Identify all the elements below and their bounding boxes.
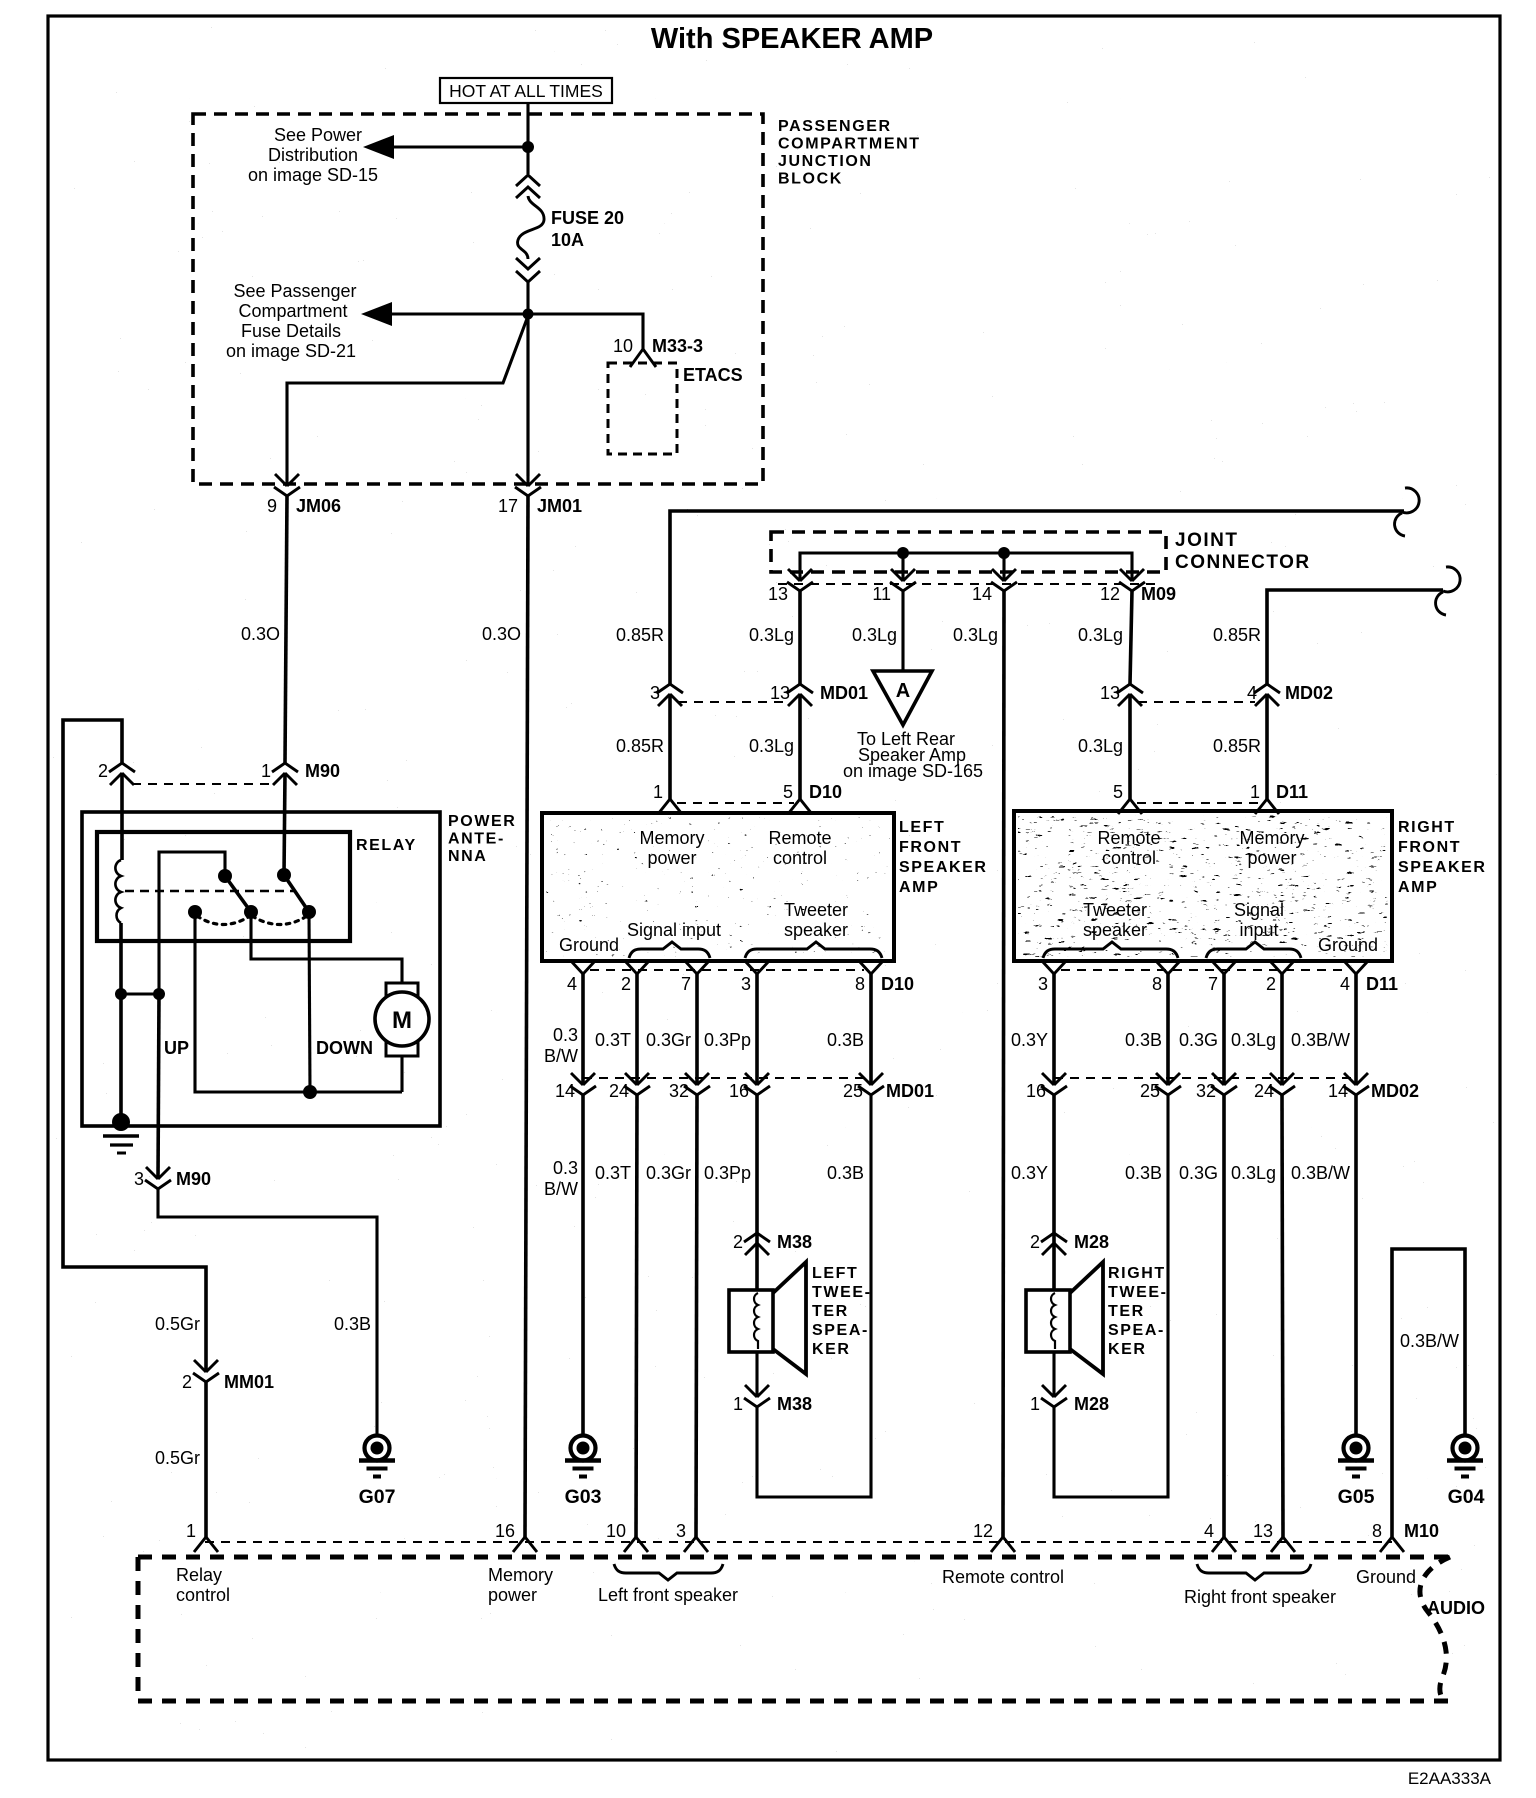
svg-text:MD01: MD01 [886, 1081, 934, 1101]
svg-text:9: 9 [267, 496, 277, 516]
svg-text:UP: UP [164, 1038, 189, 1058]
svg-text:M38: M38 [777, 1394, 812, 1414]
svg-text:RIGHT: RIGHT [1398, 819, 1456, 836]
wire D10-2 to MD01-24 [635, 974, 639, 1085]
motor terminal top [386, 983, 418, 997]
ground G05 [1338, 1436, 1374, 1477]
ground G07 [359, 1436, 395, 1477]
left tweeter speaker [729, 1262, 806, 1374]
wire MD02-16 to right tweeter [1052, 1095, 1056, 1243]
relay blade A [225, 876, 251, 912]
svg-text:D11: D11 [1366, 974, 1398, 994]
wire from HOT box down [526, 103, 529, 174]
svg-text:RELAY: RELAY [356, 837, 417, 854]
left front speaker amp U-D10 [542, 813, 894, 961]
svg-text:D11: D11 [1276, 782, 1308, 802]
svg-text:0.3T: 0.3T [595, 1163, 631, 1183]
svg-text:1: 1 [1250, 782, 1260, 802]
fuse F20 [516, 175, 540, 198]
svg-text:FRONT: FRONT [1398, 839, 1461, 856]
svg-text:G07: G07 [359, 1486, 396, 1508]
audio pin 1 relay control [194, 1537, 218, 1552]
svg-text:4: 4 [567, 974, 577, 994]
connector 14 MD01 [570, 1073, 596, 1095]
wire left tweeter to M38-1 [755, 1352, 758, 1397]
svg-text:0.3G: 0.3G [1179, 1030, 1218, 1050]
dashed line MD01 row [583, 1077, 871, 1079]
svg-text:3: 3 [650, 683, 660, 703]
wire motor bottom [400, 1055, 403, 1092]
svg-text:AMP: AMP [899, 879, 939, 896]
wire D11-4 to MD02-14 [1354, 974, 1358, 1085]
svg-text:See Passenger: See Passenger [233, 281, 356, 301]
svg-text:ETACS: ETACS [683, 365, 743, 385]
svg-text:E2AA333A: E2AA333A [1408, 1769, 1492, 1788]
wire pin11 down to triangle [901, 591, 904, 671]
svg-text:ANTE-: ANTE- [448, 831, 505, 848]
svg-text:0.5Gr: 0.5Gr [155, 1448, 200, 1468]
svg-text:0.3B: 0.3B [334, 1314, 371, 1334]
svg-text:13: 13 [1253, 1521, 1273, 1541]
svg-text:0.3: 0.3 [553, 1025, 578, 1045]
connector 32 MD02 [1211, 1073, 1237, 1095]
svg-text:1: 1 [733, 1394, 743, 1414]
wire into right tweeter [1052, 1243, 1056, 1292]
connector 1 M90 [272, 763, 298, 785]
brace right front speaker [1197, 1564, 1311, 1580]
connector 2 M38 [744, 1233, 770, 1255]
svg-text:3: 3 [134, 1169, 144, 1189]
brace tweeter speaker D11 [1043, 942, 1178, 958]
dashed line bottom pins D10 [590, 969, 864, 971]
svg-text:0.3B: 0.3B [1125, 1030, 1162, 1050]
svg-text:12: 12 [973, 1521, 993, 1541]
svg-text:0.3T: 0.3T [595, 1030, 631, 1050]
svg-text:Memory: Memory [488, 1565, 553, 1585]
connector pin 11 M09 [890, 569, 916, 591]
svg-text:G03: G03 [565, 1486, 602, 1508]
svg-text:JM01: JM01 [537, 496, 582, 516]
svg-text:2: 2 [621, 974, 631, 994]
svg-text:1: 1 [261, 761, 271, 781]
dashed line between D11 top pins [1137, 802, 1258, 804]
svg-text:Remote: Remote [1097, 828, 1160, 848]
wire to See Passenger Compartment Fuse Details arrow [386, 312, 528, 315]
brace signal input D10 [629, 942, 710, 958]
wire DOWN contact down [309, 912, 310, 1092]
svg-text:2: 2 [1266, 974, 1276, 994]
svg-text:5: 5 [783, 782, 793, 802]
dashed line bottom pins D11 [1061, 969, 1349, 971]
svg-text:M28: M28 [1074, 1394, 1109, 1414]
svg-text:4: 4 [1340, 974, 1350, 994]
svg-text:32: 32 [1196, 1081, 1216, 1101]
wire D11-2 to MD02-24 [1280, 974, 1284, 1085]
connector 25 MD01 [858, 1073, 884, 1095]
svg-text:24: 24 [1254, 1081, 1274, 1101]
relay blade B [284, 875, 309, 912]
wire MD01-3 to D10 pin1 [668, 694, 672, 799]
svg-text:AMP: AMP [1398, 879, 1438, 896]
wire D11-3 to MD02-16 [1052, 974, 1056, 1085]
wire left tweeter return loop [757, 1095, 871, 1497]
HOT AT ALL TIMES box [440, 78, 612, 103]
svg-text:control: control [176, 1585, 230, 1605]
wire D10-4 to MD01-14 [581, 974, 585, 1085]
brace left front speaker [614, 1564, 723, 1580]
svg-text:LEFT: LEFT [812, 1265, 858, 1282]
svg-text:4: 4 [1204, 1521, 1214, 1541]
svg-text:power: power [488, 1585, 537, 1605]
svg-text:0.5Gr: 0.5Gr [155, 1314, 200, 1334]
ground at antenna box bottom [112, 1113, 130, 1131]
svg-text:KER: KER [1108, 1341, 1147, 1358]
pin chevrons top D11 [1118, 799, 1142, 814]
svg-text:0.3Lg: 0.3Lg [749, 736, 794, 756]
connector pin 14 M09 [991, 569, 1017, 591]
svg-text:M38: M38 [777, 1232, 812, 1252]
wire MD02-32 to audio pin4 [1222, 1095, 1226, 1537]
pin chevrons top D10 [658, 799, 682, 814]
motor M [375, 992, 429, 1046]
svg-text:2: 2 [182, 1372, 192, 1392]
svg-text:D10: D10 [809, 782, 842, 802]
svg-text:TER: TER [812, 1303, 849, 1320]
node: fuse output junction [523, 309, 534, 320]
svg-text:PASSENGER: PASSENGER [778, 118, 892, 135]
svg-text:RIGHT: RIGHT [1108, 1265, 1166, 1282]
svg-text:12: 12 [1100, 584, 1120, 604]
wire MD02-4 to D11 pin1 [1265, 694, 1269, 799]
svg-text:0.3Lg: 0.3Lg [953, 625, 998, 645]
svg-text:BLOCK: BLOCK [778, 171, 843, 188]
audio pin 13 [1271, 1537, 1295, 1552]
wire into left tweeter [755, 1243, 759, 1292]
svg-text:0.3Pp: 0.3Pp [704, 1030, 751, 1050]
audio unit box (heavy dashed) [138, 1555, 1448, 1560]
connector 25 MD02 [1155, 1073, 1181, 1095]
svg-text:14: 14 [972, 584, 992, 604]
connector 16 MD02 [1041, 1073, 1067, 1095]
svg-text:0.3O: 0.3O [482, 624, 521, 644]
wire pin14 down to audio remote control [1003, 591, 1004, 1537]
connector 13 MD01 [787, 684, 813, 706]
power antenna box [82, 812, 440, 1126]
connector 4 MD02 [1254, 684, 1280, 706]
relay upper contact B [277, 868, 291, 882]
svg-text:speaker: speaker [784, 920, 848, 940]
wire branch to JM06 [287, 316, 528, 486]
thin dashed line across joint connector pins [778, 583, 1160, 585]
svg-text:0.3O: 0.3O [241, 624, 280, 644]
wire D10-8 to MD01-25 [869, 974, 873, 1085]
svg-text:TER: TER [1108, 1303, 1145, 1320]
svg-text:TWEE-: TWEE- [812, 1284, 872, 1301]
svg-text:0.3Y: 0.3Y [1011, 1030, 1048, 1050]
svg-text:3: 3 [1038, 974, 1048, 994]
M90 dashed connector line [132, 783, 270, 785]
svg-text:MD02: MD02 [1371, 1081, 1419, 1101]
svg-text:Tweeter: Tweeter [1083, 900, 1147, 920]
svg-text:SPEA-: SPEA- [812, 1322, 869, 1339]
wire bus to pin 11 [901, 553, 904, 581]
svg-text:17: 17 [498, 496, 518, 516]
wire to ETACS branch [528, 314, 643, 349]
wire MD02-13 to D11 pin5 [1128, 694, 1132, 799]
svg-text:AUDIO: AUDIO [1427, 1598, 1485, 1618]
wire JM01 to audio memory power [525, 496, 528, 1537]
svg-text:See Power: See Power [274, 125, 362, 145]
svg-text:13: 13 [770, 683, 790, 703]
svg-text:JM06: JM06 [296, 496, 341, 516]
svg-text:25: 25 [843, 1081, 863, 1101]
node on bus [998, 547, 1010, 559]
svg-text:2: 2 [1030, 1232, 1040, 1252]
connector 13 MD02 [1117, 684, 1143, 706]
connector 9 JM06 [274, 474, 300, 496]
svg-text:2: 2 [98, 761, 108, 781]
svg-text:M09: M09 [1141, 584, 1176, 604]
svg-text:1: 1 [1030, 1394, 1040, 1414]
svg-text:HOT AT ALL TIMES: HOT AT ALL TIMES [449, 81, 603, 101]
svg-text:FUSE 20: FUSE 20 [551, 208, 624, 228]
svg-text:MD02: MD02 [1285, 683, 1333, 703]
connector 1 M38 [744, 1385, 770, 1407]
relay lower contact DOWN [302, 905, 316, 919]
svg-text:13: 13 [1100, 683, 1120, 703]
wire audio pin8 ground loop to G04 [1392, 1249, 1465, 1537]
audio pin 3 [684, 1537, 708, 1552]
svg-text:0.3B/W: 0.3B/W [1291, 1030, 1350, 1050]
svg-text:16: 16 [729, 1081, 749, 1101]
connector 3 M90 [145, 1167, 171, 1189]
svg-text:Ground: Ground [1318, 935, 1378, 955]
svg-text:power: power [647, 848, 696, 868]
svg-text:0.3Gr: 0.3Gr [646, 1030, 691, 1050]
svg-text:8: 8 [1372, 1521, 1382, 1541]
svg-text:M28: M28 [1074, 1232, 1109, 1252]
svg-text:0.3Pp: 0.3Pp [704, 1163, 751, 1183]
svg-text:Tweeter: Tweeter [784, 900, 848, 920]
dashed line MD02 row [1054, 1077, 1356, 1079]
connector 24 MD01 [624, 1073, 650, 1095]
svg-text:With SPEAKER AMP: With SPEAKER AMP [651, 23, 933, 55]
svg-text:FRONT: FRONT [899, 839, 962, 856]
node on bus [897, 547, 909, 559]
svg-text:10: 10 [613, 336, 633, 356]
svg-text:Signal input: Signal input [627, 920, 721, 940]
connector 24 MD02 [1269, 1073, 1295, 1095]
svg-text:13: 13 [768, 584, 788, 604]
svg-text:11: 11 [872, 584, 891, 604]
svg-text:0.3B/W: 0.3B/W [1400, 1331, 1459, 1351]
wire pin12 down to MD02 [1130, 591, 1132, 684]
wire M90 pin1 down to relay contact [284, 773, 285, 875]
svg-text:3: 3 [741, 974, 751, 994]
ground G03 [565, 1436, 601, 1477]
svg-text:control: control [1102, 848, 1156, 868]
wire M90 pin3 to G07 ground [158, 1189, 377, 1434]
audio box wavy right edge [1420, 1557, 1450, 1701]
svg-text:on image SD-15: on image SD-15 [248, 165, 378, 185]
svg-text:0.3B/W: 0.3B/W [1291, 1163, 1350, 1183]
wire MD01-24 to audio pin10 [636, 1095, 637, 1537]
brace signal input D11 [1206, 942, 1301, 958]
wire M90 pin2 up and over to left trunk [63, 720, 206, 1372]
svg-text:M90: M90 [176, 1169, 211, 1189]
svg-text:4: 4 [1247, 683, 1257, 703]
wire D10-3 to MD01-16 [755, 974, 759, 1085]
connector 3 MD01 [657, 684, 683, 706]
wire coil to ground [119, 923, 123, 1124]
svg-text:POWER: POWER [448, 813, 516, 830]
audio pin 4 [1212, 1537, 1236, 1552]
audio pin 8 M10 ground [1380, 1537, 1404, 1552]
relay coil [115, 860, 121, 923]
svg-text:Signal: Signal [1234, 900, 1284, 920]
svg-text:0.3Lg: 0.3Lg [852, 625, 897, 645]
connector pin 12 M09 [1119, 569, 1145, 591]
svg-text:Remote control: Remote control [942, 1567, 1064, 1587]
svg-text:0.3G: 0.3G [1179, 1163, 1218, 1183]
connector 17 JM01 [526, 314, 529, 486]
svg-text:Distribution: Distribution [268, 145, 358, 165]
audio pin 16 memory power [513, 1537, 537, 1552]
wire mid contact to motor top [251, 912, 402, 983]
svg-text:0.3Y: 0.3Y [1011, 1163, 1048, 1183]
svg-text:M90: M90 [305, 761, 340, 781]
right front speaker amp U-D11 [1014, 811, 1392, 961]
node junction right [153, 988, 165, 1000]
svg-text:Compartment: Compartment [238, 301, 347, 321]
wire M90 pin2 down into relay coil [120, 773, 124, 860]
svg-text:0.3Lg: 0.3Lg [749, 625, 794, 645]
svg-text:JUNCTION: JUNCTION [778, 153, 873, 170]
svg-text:CONNECTOR: CONNECTOR [1175, 552, 1311, 573]
wire MD01-16 to left tweeter [755, 1095, 759, 1243]
pin chevrons bottom D10 [571, 961, 595, 974]
joint connector box (dashed) [771, 532, 1166, 572]
connector 2 M90 [109, 763, 135, 785]
wire 0.85R left amp memory power to off-page [670, 511, 1404, 684]
wire below fuse [526, 282, 529, 476]
svg-text:G05: G05 [1338, 1486, 1375, 1508]
svg-text:MM01: MM01 [224, 1372, 274, 1392]
right tweeter speaker [1026, 1262, 1103, 1374]
svg-text:M: M [392, 1007, 412, 1034]
svg-text:0.3Gr: 0.3Gr [646, 1163, 691, 1183]
svg-text:3: 3 [676, 1521, 686, 1541]
svg-text:MD01: MD01 [820, 683, 868, 703]
wire MD01-13 to D10 pin5 [798, 694, 802, 799]
svg-text:2: 2 [733, 1232, 743, 1252]
off-page hook lower [1436, 567, 1461, 615]
svg-text:LEFT: LEFT [899, 819, 945, 836]
svg-text:8: 8 [1152, 974, 1162, 994]
svg-text:24: 24 [609, 1081, 629, 1101]
svg-text:control: control [773, 848, 827, 868]
svg-text:Ground: Ground [1356, 1567, 1416, 1587]
svg-text:0.3Lg: 0.3Lg [1231, 1163, 1276, 1183]
svg-text:Fuse Details: Fuse Details [241, 321, 341, 341]
wire right tweeter return loop [1054, 1095, 1168, 1497]
svg-text:Memory: Memory [1239, 828, 1304, 848]
audio pin 12 remote control [991, 1537, 1015, 1552]
svg-text:0.3: 0.3 [553, 1158, 578, 1178]
relay upper contact A [218, 869, 232, 883]
wire D11-7 to MD02-32 [1222, 974, 1226, 1085]
svg-text:10: 10 [606, 1521, 626, 1541]
thin dashed line across audio pins [205, 1541, 1392, 1543]
svg-text:Remote: Remote [768, 828, 831, 848]
svg-text:NNA: NNA [448, 848, 487, 865]
svg-text:B/W: B/W [544, 1046, 578, 1066]
connector 2 MM01 [193, 1360, 219, 1382]
svg-text:0.3Lg: 0.3Lg [1231, 1030, 1276, 1050]
wire D11-8 to MD02-25 [1166, 974, 1170, 1085]
svg-text:1: 1 [653, 782, 663, 802]
off-page hook upper [1395, 488, 1420, 536]
wire UP contact down [195, 912, 402, 1092]
node: power feed junction [522, 141, 534, 153]
dashed line between D10 top pins [677, 802, 794, 804]
svg-text:M10: M10 [1404, 1521, 1439, 1541]
triangle A to left rear speaker amp [873, 671, 932, 725]
connector 16 MD01 [744, 1073, 770, 1095]
svg-text:0.3B: 0.3B [827, 1030, 864, 1050]
svg-text:Ground: Ground [559, 935, 619, 955]
svg-text:0.85R: 0.85R [1213, 625, 1261, 645]
brace tweeter speaker D10 [745, 942, 882, 958]
joint connector bus wire [800, 553, 1132, 581]
svg-text:0.85R: 0.85R [1213, 736, 1261, 756]
svg-text:1: 1 [186, 1521, 196, 1541]
wire pin13 down to MD01 [798, 591, 802, 684]
svg-text:0.3Lg: 0.3Lg [1078, 625, 1123, 645]
svg-text:14: 14 [1328, 1081, 1348, 1101]
connector 32 MD01 [684, 1073, 710, 1095]
wire to See Power Distribution arrow [388, 145, 528, 148]
svg-text:B/W: B/W [544, 1179, 578, 1199]
svg-text:TWEE-: TWEE- [1108, 1284, 1168, 1301]
connector 14 MD02 [1343, 1073, 1369, 1095]
svg-text:5: 5 [1113, 782, 1123, 802]
svg-text:Left front speaker: Left front speaker [598, 1585, 738, 1605]
svg-text:SPEA-: SPEA- [1108, 1322, 1165, 1339]
wire bus to pin 14 [1002, 553, 1005, 581]
wire between junctions [121, 992, 159, 995]
connector pin 13 M09 [787, 569, 813, 591]
audio pin 10 [624, 1537, 648, 1552]
svg-text:7: 7 [1208, 974, 1218, 994]
svg-text:on image SD-165: on image SD-165 [843, 761, 983, 781]
relay box [97, 832, 350, 941]
svg-text:SPEAKER: SPEAKER [899, 859, 988, 876]
pin chevrons bottom D11 [1042, 961, 1066, 974]
wire JM06 to M90 pin 1 [285, 496, 287, 763]
svg-text:0.85R: 0.85R [616, 736, 664, 756]
svg-text:Memory: Memory [639, 828, 704, 848]
dashed line between MD02 pins [1138, 701, 1255, 703]
svg-text:speaker: speaker [1083, 920, 1147, 940]
svg-text:M33-3: M33-3 [652, 336, 703, 356]
svg-text:Relay: Relay [176, 1565, 222, 1585]
connector 2 M28 [1041, 1233, 1067, 1255]
svg-text:D10: D10 [881, 974, 914, 994]
wire right tweeter to M28-1 [1052, 1352, 1055, 1397]
svg-text:0.3Lg: 0.3Lg [1078, 736, 1123, 756]
svg-text:input: input [1239, 920, 1278, 940]
